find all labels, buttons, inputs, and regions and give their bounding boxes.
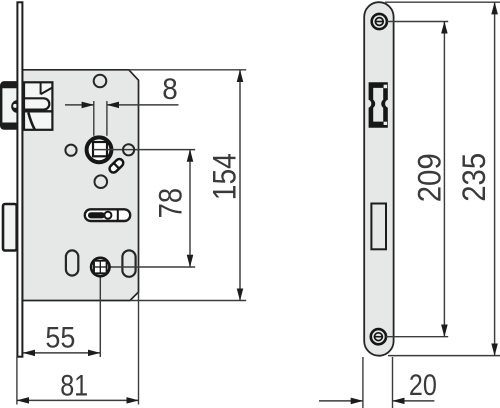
svg-text:8: 8 xyxy=(162,73,178,106)
latch bolt head xyxy=(1,82,18,128)
svg-text:55: 55 xyxy=(45,322,75,355)
dim 81 left extension line xyxy=(16,357,18,405)
bottom hub white square fill xyxy=(94,261,107,274)
bottom hub square frame xyxy=(94,261,107,274)
latch head top band xyxy=(1,82,18,88)
dim 20 right extension line xyxy=(392,357,394,408)
latch bar thick line xyxy=(24,110,52,112)
privacy pin capsule xyxy=(108,157,125,174)
top screw inner xyxy=(375,18,383,26)
latch tail curve xyxy=(28,113,35,130)
left circle xyxy=(65,145,76,156)
dim 235 top leader xyxy=(385,1,500,3)
faceplate side view plate xyxy=(364,2,393,356)
right oval slot xyxy=(122,250,135,276)
svg-text:235: 235 xyxy=(456,153,492,202)
bottom screw outer xyxy=(371,329,386,344)
top screw outer xyxy=(372,14,387,29)
bottom hub leader horizontal xyxy=(110,266,195,268)
right circle xyxy=(123,144,134,155)
dim 209 line xyxy=(443,22,445,337)
spindle hub leader line xyxy=(93,149,195,151)
slider divider line xyxy=(117,210,119,221)
dim 20 left extension line xyxy=(362,357,364,408)
bottom hub cross vertical xyxy=(99,261,101,274)
dim 55 line xyxy=(23,352,100,354)
lock case body xyxy=(22,70,138,301)
latch head pin half-ring xyxy=(11,100,18,113)
latch cutout top-right notch xyxy=(384,85,388,89)
latch spring bar xyxy=(24,98,49,109)
dim 8 right arrow xyxy=(107,104,179,106)
top hole xyxy=(94,75,107,88)
top screw slot xyxy=(375,21,384,23)
latch head pin center xyxy=(13,104,17,108)
latch cutout bracket xyxy=(369,82,388,128)
dim 20 left arrow xyxy=(319,400,363,402)
dim 235 bottom leader xyxy=(388,355,500,357)
latch cutout bottom-right notch xyxy=(384,122,388,125)
bottom hub ring xyxy=(91,258,109,276)
slider knob circle xyxy=(104,212,111,219)
dim 8 right extension line xyxy=(106,101,108,136)
dim 235 line xyxy=(494,2,496,355)
bottom hub cross horizontal xyxy=(94,266,107,268)
dim 81 right extension line xyxy=(138,292,140,405)
faceplate strip (edge view) xyxy=(17,2,22,356)
svg-text:78: 78 xyxy=(153,188,189,219)
latch notch diagonal xyxy=(41,88,53,95)
latch mechanism box xyxy=(24,82,52,130)
dim 20 right arrow xyxy=(393,400,435,402)
svg-text:20: 20 xyxy=(409,369,437,402)
slider dark bar xyxy=(88,212,105,218)
small circle below hub xyxy=(95,175,108,188)
dim 209 top leader xyxy=(387,21,448,23)
bottom hub leader vertical xyxy=(99,277,101,358)
slider slot capsule xyxy=(85,209,130,221)
dim 154 top leader xyxy=(129,69,246,71)
dim 154 line xyxy=(239,70,241,301)
spindle hub ring xyxy=(87,137,112,162)
dim 154 bottom leader xyxy=(130,300,246,302)
dim 78 line xyxy=(189,150,191,267)
svg-text:81: 81 xyxy=(60,369,88,402)
deadbolt xyxy=(3,204,17,251)
latch head bottom band xyxy=(1,123,18,129)
dim 81 line xyxy=(17,399,139,401)
dim 209 bottom leader xyxy=(386,336,448,338)
bottom screw inner xyxy=(375,333,383,341)
left oval slot xyxy=(66,250,78,275)
dim 8 left extension line xyxy=(93,101,95,136)
svg-text:209: 209 xyxy=(412,153,448,202)
spindle hub square xyxy=(93,142,107,156)
dim 8 left arrow xyxy=(65,104,94,106)
deadbolt cutout xyxy=(371,204,386,250)
bottom screw slot xyxy=(374,336,383,338)
latch notch vertical line xyxy=(40,82,42,94)
svg-text:154: 154 xyxy=(206,153,242,200)
bottom hub ring overlay xyxy=(91,258,109,276)
